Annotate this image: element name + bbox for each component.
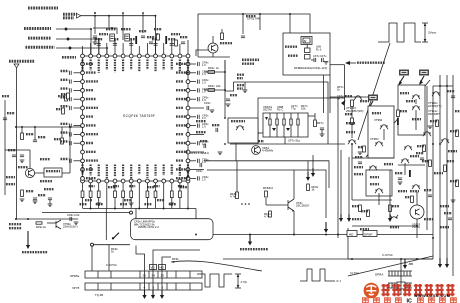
wire stub right pin 11 xyxy=(190,160,196,162)
diode VD91 solid xyxy=(397,118,399,125)
capacitor C9L1 xyxy=(69,217,71,221)
capacitor C9r6 xyxy=(448,217,452,219)
wire diagonal from waveform xyxy=(358,43,390,140)
svg-text:4.7Vp: 4.7Vp xyxy=(241,281,248,284)
svg-text:DPRA: DPRA xyxy=(375,273,383,277)
label 2-line right pins extra xyxy=(196,120,206,122)
wire VT96b base xyxy=(47,222,56,224)
connector pad J1 black xyxy=(399,70,409,76)
transistor VT910 xyxy=(375,189,383,190)
capacitor C78 at left pin xyxy=(74,133,81,135)
wire riser x92 to connector xyxy=(91,246,93,271)
wire box down x236 xyxy=(235,143,237,161)
svg-text:5.6: 5.6 xyxy=(269,186,273,190)
resistor R63 4.7k xyxy=(236,192,239,199)
resistor R91 xyxy=(351,100,354,107)
svg-text:IC: IC xyxy=(407,299,412,303)
diode VD82 solid xyxy=(165,36,167,44)
connector pad J2 black xyxy=(419,70,429,76)
wire Y output line xyxy=(56,39,99,56)
svg-text:1.0: 1.0 xyxy=(202,116,206,120)
wire VT6x base left xyxy=(266,204,288,206)
label G-Chap top xyxy=(62,56,76,59)
wire drop x237 xyxy=(236,161,238,192)
resistor R62 left xyxy=(21,190,24,197)
wire stub above IC pin 14 xyxy=(187,40,189,54)
wire stub above IC pin 9 xyxy=(146,43,148,54)
svg-text:10k: 10k xyxy=(216,84,221,88)
capacitor C9r5 xyxy=(420,157,424,159)
capacitor C86 above IC xyxy=(129,43,133,45)
label LFD 7897 left of IF box xyxy=(242,58,259,61)
resistor R512 under IC xyxy=(179,183,181,191)
box VT71 right of IC xyxy=(228,118,258,143)
ground left xyxy=(33,200,38,202)
waveform HD pulses bottom-right xyxy=(300,269,333,281)
transistor VT961 xyxy=(25,168,34,177)
resistor R67 4.7k xyxy=(269,211,272,217)
terminal circle end of bus xyxy=(130,211,133,214)
swoosh to waveform xyxy=(171,261,262,271)
capacitor C94 at right pin xyxy=(197,97,199,101)
svg-text:RF9x 1k: RF9x 1k xyxy=(36,225,47,229)
IC U1 left pin name labels xyxy=(86,64,98,178)
capacitor C811 above IC xyxy=(170,43,174,45)
svg-text:CF51 045: CF51 045 xyxy=(247,17,261,21)
resistor R9b xyxy=(456,130,459,137)
capacitor C6L0 xyxy=(3,117,7,119)
wire left vertical x5 xyxy=(4,150,6,195)
wire VT6x collector up xyxy=(293,170,295,199)
transistor VT92 xyxy=(412,106,420,107)
capacitor C83 xyxy=(149,41,153,43)
transistor VT93 xyxy=(380,125,388,126)
svg-text:CF7x: CF7x xyxy=(313,54,320,58)
resistor R94 xyxy=(429,160,432,167)
wire right pin links to x225 xyxy=(204,71,225,73)
svg-text:TQ 2B: TQ 2B xyxy=(95,293,103,297)
wire stub above IC pin 4 xyxy=(106,43,108,54)
transistor VT98 xyxy=(369,166,377,167)
wire stub above IC pin 5 xyxy=(114,40,116,54)
wire right mesh y165 xyxy=(398,164,425,166)
waveform VD pulses bottom-left xyxy=(197,274,232,287)
svg-text:0327M: 0327M xyxy=(263,108,272,112)
IC U1 bottom pins row xyxy=(81,179,190,183)
box video output stage B2 xyxy=(398,85,425,135)
capacitor C9r2 xyxy=(398,177,402,179)
resistor RN72 in module xyxy=(283,113,285,137)
capacitor C96 at right pin xyxy=(197,115,199,119)
wire drop to C651 xyxy=(242,14,244,34)
capacitor C62 left xyxy=(33,197,37,199)
arrow from pad J1 xyxy=(399,76,404,84)
capacitor C90 at right pin xyxy=(197,62,199,66)
label B-Y colour difference output xyxy=(24,27,51,30)
wire right mesh y158 xyxy=(352,157,394,159)
wire rail above IC left xyxy=(93,28,117,34)
pen mark xyxy=(113,233,120,239)
capacitor C71 at left pin xyxy=(74,72,81,74)
wire B-Y output line xyxy=(56,29,91,56)
wire left bus y127 xyxy=(16,126,83,128)
svg-text:3Vp-p: 3Vp-p xyxy=(428,31,437,35)
resistor R99 xyxy=(423,145,426,152)
wire mid horizontal under SDA xyxy=(230,143,345,145)
capacitor C79 at left pin xyxy=(74,142,81,144)
svg-text:DPNP: DPNP xyxy=(364,233,372,237)
svg-text:W/M5x CF5x 2.2: W/M5x CF5x 2.2 xyxy=(138,225,159,229)
wire module to bus xyxy=(284,137,286,144)
junction dots left bus xyxy=(21,126,23,128)
wire right area verticals x433 xyxy=(432,86,434,259)
polarized capacitor C81 xyxy=(110,34,115,41)
wire crystal feed xyxy=(289,14,291,33)
IC U1 left pins column xyxy=(81,62,85,180)
svg-text:XPY8: XPY8 xyxy=(72,286,80,290)
diode D B-Y xyxy=(64,27,68,31)
wire top connector of right verticals xyxy=(433,85,453,87)
svg-text:1.0: 1.0 xyxy=(202,177,206,181)
wire stub right pin 1 xyxy=(190,72,196,74)
wire riser x109 to connector xyxy=(108,245,110,271)
diode D R-Y xyxy=(68,46,72,50)
svg-text:OPR5a: OPR5a xyxy=(70,274,80,278)
transistor VT9m extra bump xyxy=(354,96,362,97)
resistor R59 under IC xyxy=(155,183,157,191)
resistor R6L2 column xyxy=(61,138,64,144)
svg-text:SCQF56 TA8759F: SCQF56 TA8759F xyxy=(123,114,155,118)
resistor R69 left mid xyxy=(62,108,65,114)
box video output stage B3 xyxy=(366,170,392,196)
transistor VT72 left of module xyxy=(250,129,259,138)
wire pen drop x106 xyxy=(105,209,107,241)
transistor VT911 xyxy=(412,185,420,186)
wire stub right pin 2 xyxy=(190,81,196,83)
capacitor C91 at right pin xyxy=(197,71,199,75)
wire +B supply rail top xyxy=(81,16,156,56)
transistor VT95 xyxy=(375,142,383,143)
svg-text:WWW.DZSC.COM: WWW.DZSC.COM xyxy=(414,293,450,298)
svg-text:2SA1015(Y): 2SA1015(Y) xyxy=(63,225,78,229)
wire stub above IC pin 10 xyxy=(155,40,157,54)
resistor R68 left mid xyxy=(67,93,70,99)
capacitor C6d low xyxy=(199,163,201,167)
label UPD filter xyxy=(285,46,298,48)
connector bar CN1 xyxy=(85,271,202,278)
svg-text:VT952: VT952 xyxy=(374,118,383,122)
wire long bus y259 xyxy=(223,258,433,260)
resistor R511 under IC xyxy=(171,183,173,191)
label +B power input text xyxy=(28,7,58,10)
wire right mesh y226 xyxy=(352,225,417,227)
label RF6x 1k at rail xyxy=(237,73,244,75)
wire stub right pin 5 xyxy=(190,107,196,109)
wire left inner vertical x62 xyxy=(61,127,63,138)
wire stub above IC pin 13 xyxy=(179,44,181,54)
capacitor C651 xyxy=(241,35,245,37)
capacitor C9r1 xyxy=(358,161,362,163)
diagonal inside deflection xyxy=(348,256,433,276)
resistor R61 left xyxy=(21,133,24,140)
capacitor C82 above IC xyxy=(97,43,101,45)
delay line DPRA ladder1 xyxy=(388,270,412,272)
svg-text:2SC3357(RX): 2SC3357(RX) xyxy=(346,109,363,113)
resistor R51 under IC xyxy=(90,183,92,191)
label clusters right area xyxy=(346,122,355,124)
wire VT51 emitter xyxy=(212,53,214,57)
svg-text:10k: 10k xyxy=(301,107,306,111)
wire VT961 links xyxy=(29,150,31,168)
capacitor C75 at left pin xyxy=(74,107,81,109)
svg-text:CF7x 51p: CF7x 51p xyxy=(288,139,301,143)
ground stub at rail xyxy=(244,82,246,90)
wire right horizontal y97 xyxy=(330,96,368,98)
terminal +9V arrow xyxy=(14,64,19,68)
wire right mesh y200 xyxy=(352,199,392,201)
resistor R6L1 column xyxy=(65,95,68,101)
transistor VT91 xyxy=(432,92,440,93)
capacitor C72 at left pin xyxy=(74,81,81,83)
wire IF bus drop xyxy=(344,65,346,110)
resistor R6b right of IC xyxy=(208,89,215,92)
junction dots right xyxy=(439,85,441,87)
diode VD72 xyxy=(305,55,311,60)
wire IF bus horizontal xyxy=(330,64,345,66)
resistor R9e xyxy=(363,146,366,152)
resistor R58 under IC xyxy=(146,183,148,191)
junction dots above IC xyxy=(122,12,124,14)
resistor R9d xyxy=(411,196,414,203)
wire under-IC bus y212.6 short xyxy=(42,212,130,214)
capacitor C6f xyxy=(203,144,205,148)
jungle IC U1 SCQF56 TA8759F body xyxy=(83,56,189,181)
svg-text:(4.7Vp: (4.7Vp xyxy=(350,271,359,275)
wire flyback vertical x440 xyxy=(439,75,441,264)
ground symbols under IC xyxy=(96,202,101,204)
wire VT51 collector up xyxy=(212,36,214,43)
label power start signal input xyxy=(27,231,29,245)
resistor R82 xyxy=(175,40,178,46)
transistor VD61 circle mid xyxy=(252,146,261,155)
capacitor C61 left xyxy=(33,139,37,141)
extra labels under IC xyxy=(85,199,92,201)
wire vertical x427 xyxy=(426,86,428,230)
resistor RN73 in module xyxy=(290,113,292,137)
wire VT6x emitter down xyxy=(293,211,295,235)
resistor RN70 in module xyxy=(269,113,271,137)
wire stub above IC pin 7 xyxy=(130,40,132,54)
wire stub above IC pin 2 xyxy=(90,43,92,54)
svg-text:1.0: 1.0 xyxy=(202,81,206,85)
svg-text:4.43MHz: 4.43MHz xyxy=(262,149,274,153)
resistor R93 xyxy=(397,110,400,117)
svg-text:RF6x: RF6x xyxy=(208,84,215,88)
wire vert x225 extend xyxy=(224,60,226,91)
label AGC output arrow mid xyxy=(249,235,251,242)
capacitor C89 above IC xyxy=(153,43,157,45)
wire CSYNC riser xyxy=(136,246,145,263)
label R-Y colour difference output xyxy=(26,46,55,49)
wire drop x196 to bus xyxy=(195,209,197,235)
wire stub right pin 12 xyxy=(190,169,196,171)
resistor R9L1 xyxy=(36,222,42,224)
capacitor C911 at right pin xyxy=(197,159,199,163)
resistor R66 5.6 xyxy=(265,191,268,197)
IC U1 right pin name labels xyxy=(176,64,188,178)
terminal +B input arrow xyxy=(77,14,81,19)
wire stub right pin 13 xyxy=(190,177,196,179)
wire VD HD verticals with arrows xyxy=(144,262,146,290)
svg-text:C-SYNC: C-SYNC xyxy=(106,263,117,267)
resistor R9a xyxy=(436,120,439,127)
wire +B branch down x109 xyxy=(108,16,110,30)
resistor R83 xyxy=(157,34,160,40)
wire flyback vertical x447 xyxy=(446,75,448,264)
extra labels right block xyxy=(354,166,363,168)
filter block UPW PL-V2 xyxy=(44,168,62,177)
wire left x5 upper xyxy=(4,100,6,150)
resistor R95 xyxy=(444,165,447,172)
dimension arrow 3Vp-p xyxy=(422,22,428,24)
svg-text:2SC1815Y: 2SC1815Y xyxy=(296,204,310,208)
label +9V power input xyxy=(9,60,35,63)
transistor VT9o extra bump xyxy=(390,217,398,218)
arrow solid at IF drop xyxy=(341,100,346,106)
wire ladder vertical xyxy=(400,259,402,295)
watermark slogan pseudo glyphs xyxy=(363,298,457,303)
capacitor C76 right of module xyxy=(320,127,324,129)
wire stub above IC pin 6 xyxy=(122,43,124,54)
transistor VT96b bottom-left xyxy=(55,221,57,228)
wire vert right of IC xyxy=(224,60,226,118)
svg-text:RF7x: RF7x xyxy=(317,121,324,125)
delay-line module U7 box xyxy=(263,113,308,137)
diode VD81 solid xyxy=(135,36,137,44)
resistor R73 right of module xyxy=(314,120,317,127)
connector pad J3 black xyxy=(368,95,378,101)
wire +B branch down x95 xyxy=(94,16,96,34)
svg-text:VT95C: VT95C xyxy=(370,137,379,141)
wire pin drop under IC xyxy=(163,183,165,209)
capacitor C73 at left pin xyxy=(74,89,81,91)
wire stub right pin 3 xyxy=(190,89,196,91)
svg-text:4.7k: 4.7k xyxy=(264,215,270,219)
svg-text:PL-0: PL-0 xyxy=(316,49,322,52)
capacitor C97 at right pin xyxy=(197,124,199,128)
capacitor C6L1 xyxy=(12,154,16,156)
capacitor C6c xyxy=(206,106,208,110)
rounded CPU box U9 xyxy=(131,219,213,240)
IC U1 bottom pin name labels xyxy=(83,165,189,179)
svg-text:DP61 4.43MHz: DP61 4.43MHz xyxy=(190,151,210,155)
wire bus y244.7 short xyxy=(91,243,94,246)
delay line ladder2 xyxy=(388,282,412,284)
transistor VT51 top xyxy=(208,43,218,53)
capacitor C93 at right pin xyxy=(197,88,199,92)
resistor RN71 in module xyxy=(276,113,278,137)
svg-text:SDA434A(CON)L-4(X): SDA434A(CON)L-4(X) xyxy=(299,66,327,70)
wire stub right pin 6 xyxy=(190,116,196,118)
transistor VT96 xyxy=(404,146,412,147)
IC U1 right pins column xyxy=(186,62,190,180)
resistor R6a right of IC xyxy=(208,71,215,74)
crystal X1 4.43MHz xyxy=(301,37,312,45)
svg-text:1.0: 1.0 xyxy=(202,63,206,67)
wire stub right pin 4 xyxy=(190,98,196,100)
box video output stage B1 xyxy=(368,106,394,158)
wire module left link xyxy=(258,132,263,134)
resistor R50 under IC xyxy=(82,183,84,191)
wire pin drop under IC xyxy=(106,183,108,209)
svg-text:CF7x: CF7x xyxy=(320,54,327,58)
labels under IC resistors xyxy=(80,203,87,205)
svg-text:CF9x 0.02: CF9x 0.02 xyxy=(67,213,80,217)
junction dots bottom buses xyxy=(249,234,251,236)
capacitor C84 xyxy=(141,35,145,37)
capacitor C84 above IC xyxy=(113,43,117,45)
svg-text:2SC3357: 2SC3357 xyxy=(428,112,440,116)
label cluster left lower xyxy=(6,176,15,178)
wire VT51 base to IC xyxy=(196,50,208,56)
svg-text:RF6x: RF6x xyxy=(208,66,215,70)
diode D Y xyxy=(66,37,70,41)
capacitor C92 at right pin xyxy=(197,80,199,84)
diode VD92 solid xyxy=(409,170,411,177)
svg-text:1.0: 1.0 xyxy=(202,72,206,76)
wire stub above IC pin 1 xyxy=(82,46,84,54)
capacitor C85 xyxy=(181,41,185,43)
watermark title 维库电子市场网 pseudo glyphs xyxy=(382,284,455,296)
capacitor C63 left low xyxy=(48,197,52,199)
ground symbols right xyxy=(358,151,363,153)
wire pin drop under IC xyxy=(138,183,140,209)
transistor VT97 xyxy=(423,132,431,133)
wire SDA top rail xyxy=(234,82,329,144)
arrows RD WD DPNP onto bus xyxy=(340,150,342,214)
capacitor C711 at left pin xyxy=(74,160,81,162)
svg-text:PL-C: PL-C xyxy=(277,108,283,112)
diodes in module xyxy=(272,128,276,131)
arrow from pad J3 xyxy=(369,101,373,108)
label R711 xyxy=(288,55,298,57)
resistor R56 under IC xyxy=(130,183,132,191)
bottom-right deflection box xyxy=(348,258,433,260)
svg-text:77p: 77p xyxy=(291,107,296,111)
wire stub right pin 9 xyxy=(190,142,196,144)
wire top rail to IF section xyxy=(198,14,310,57)
watermark logo circle xyxy=(364,283,379,298)
IC U1 top pin name labels xyxy=(83,60,189,74)
resistor R98 xyxy=(367,210,370,217)
resistor R55 under IC xyxy=(122,183,124,191)
ground right of IC xyxy=(210,109,215,111)
resistor R96 xyxy=(359,205,362,212)
IF sub-board box around crystal xyxy=(283,33,330,75)
wire stub above IC pin 3 xyxy=(98,40,100,54)
IC U1 top pins row xyxy=(81,54,190,58)
label companion IC note with arrow xyxy=(345,61,350,65)
wire drop x136 xyxy=(135,209,137,219)
wire bus left y219 xyxy=(15,218,78,220)
wire verticals below IF box xyxy=(323,75,325,113)
transistor VT90 xyxy=(412,95,420,96)
wire top transistor rail xyxy=(198,56,230,58)
polarized capacitor C82 xyxy=(125,34,130,41)
wire left column vertical x16 xyxy=(16,127,18,219)
vertical long x338 xyxy=(337,97,339,238)
wire long bus y234.5 xyxy=(196,234,433,236)
